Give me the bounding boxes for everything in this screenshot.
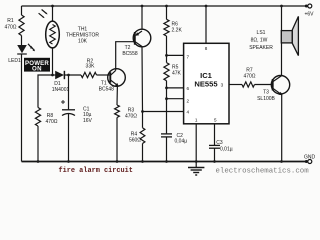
transistor T3 [271,76,289,96]
terminal +6V [305,5,308,8]
junction speaker/top rail [280,5,283,8]
diode D1 [55,71,64,79]
svg-text:1N4001: 1N4001 [52,87,70,93]
svg-text:8: 8 [205,46,208,51]
capacitor C3 [209,145,220,148]
speaker LS1 [281,16,298,55]
wire T1 collector up to T2 base [116,42,135,71]
node pin2 junction [165,97,168,100]
svg-text:SPEAKER: SPEAKER [249,45,273,51]
svg-text:5: 5 [214,118,217,123]
wire top rail +6V [22,5,308,7]
svg-text:NE555: NE555 [194,79,218,88]
resistor R3 [115,105,120,118]
wire R8 to bottom rail [37,126,39,162]
svg-text:470Ω: 470Ω [4,25,16,31]
wire T1 emitter to R3 [116,85,118,105]
wire C1 top [68,75,70,109]
junction R8/bottom rail [37,160,40,163]
svg-text:BC558: BC558 [122,51,138,57]
svg-text:0,01µ: 0,01µ [220,147,233,153]
junction T2/top rail [141,5,144,8]
svg-text:R1: R1 [7,18,14,24]
resistor R8 [35,108,40,127]
terminal GND [305,160,308,163]
svg-text:T3: T3 [263,90,269,96]
resistor R1 [19,15,24,36]
capacitor C2 [161,134,172,137]
svg-text:ON: ON [32,66,42,73]
junction pin1/bottom rail [195,160,198,163]
wire pin 5 to C3 [214,124,216,145]
svg-text:16V: 16V [83,118,93,124]
wire T2 collector down [141,47,144,128]
resistor R4 [140,128,145,144]
wire LED1 cathode down to bottom rail [21,54,23,162]
svg-text:470Ω: 470Ω [125,113,137,119]
svg-text:3: 3 [221,82,224,87]
wire pin 8 to top rail [205,6,207,43]
switch POWER ON [24,58,50,73]
wire pin 7 [167,54,184,56]
junction pin8/top rail [205,5,208,8]
junction T3 emitter/bottom rail [280,160,283,163]
svg-text:BC548: BC548 [99,86,115,92]
wire left rail [21,6,23,15]
svg-text:0,04µ: 0,04µ [175,139,188,145]
svg-text:560Ω: 560Ω [129,137,141,143]
svg-text:6: 6 [187,86,190,91]
thermistor TH1 [39,5,60,75]
wire R5 bottom to C2 [166,81,168,134]
svg-text:7: 7 [187,54,190,59]
node pin6 junction [165,87,168,90]
wire pin 3 to R7 [229,84,242,86]
node junction pin4 [141,110,144,113]
wire C2 to bottom rail [166,137,168,162]
wire R6 to pin7 node [166,36,168,63]
svg-text:LS1: LS1 [257,30,266,36]
svg-text:C3: C3 [216,140,223,146]
wire C1 to bottom rail [68,114,70,162]
svg-text:electroschematics.com: electroschematics.com [216,168,310,176]
junction C2/bottom rail [165,160,168,163]
svg-text:GND: GND [304,155,316,161]
wire bottom rail GND [22,161,308,163]
LED LED1 [17,44,35,54]
svg-text:fire alarm circuit: fire alarm circuit [59,167,133,175]
node pin7 junction [165,54,168,57]
wire pin 6 [167,87,184,89]
resistor R5 [164,63,169,81]
svg-text:2: 2 [187,98,190,103]
svg-text:33K: 33K [86,64,96,70]
wire pin 1 to ground [195,124,197,162]
junction R4/bottom rail [141,160,144,163]
wire R2 to T1 base [97,74,111,76]
wire node to D1 [53,74,56,76]
svg-text:470Ω: 470Ω [45,119,57,125]
IC IC1 NE555 [184,43,229,124]
svg-text:10K: 10K [78,38,88,44]
node junction thermistor/D1 [51,74,54,77]
svg-text:8Ω, 1W: 8Ω, 1W [251,38,268,44]
wire T2 emitter to top rail [141,6,143,29]
svg-text:470Ω: 470Ω [243,73,255,79]
ground [188,162,204,176]
wire R1 to LED1 [21,36,23,46]
svg-text:SL100B: SL100B [257,96,275,102]
svg-text:+6V: +6V [304,12,314,18]
wire pin 2 [167,98,184,100]
wire R7 to T3 base [255,84,272,86]
resistor R6 [164,19,169,36]
junction C3/bottom rail [213,160,216,163]
junction R3/bottom rail [116,160,119,163]
junction C1/bottom rail [67,160,70,163]
wire T3 emitter to bottom rail [281,95,283,162]
wire node to R8 corner [38,75,53,108]
capacitor C1 [61,100,75,116]
node junction C1 [67,74,70,77]
svg-text:47K: 47K [172,71,182,77]
wire R4 to bottom rail [142,144,144,162]
junction R6/top rail [165,5,168,8]
svg-text:4: 4 [187,110,190,115]
transistor T2 [133,29,151,47]
wire T3 collector to speaker [281,6,283,76]
resistor R2 [81,72,97,77]
wire pin 4 [143,111,184,113]
svg-text:2.2K: 2.2K [172,28,183,34]
svg-text:LED1: LED1 [8,58,21,64]
wire R6 top to rail [166,6,168,19]
wire D1 to R2 [65,74,82,76]
wire C3 to bottom rail [214,148,216,161]
wire R3 to bottom rail [116,118,118,162]
resistor R7 [242,82,255,87]
transistor T1 [108,69,126,87]
svg-text:1: 1 [195,118,198,123]
